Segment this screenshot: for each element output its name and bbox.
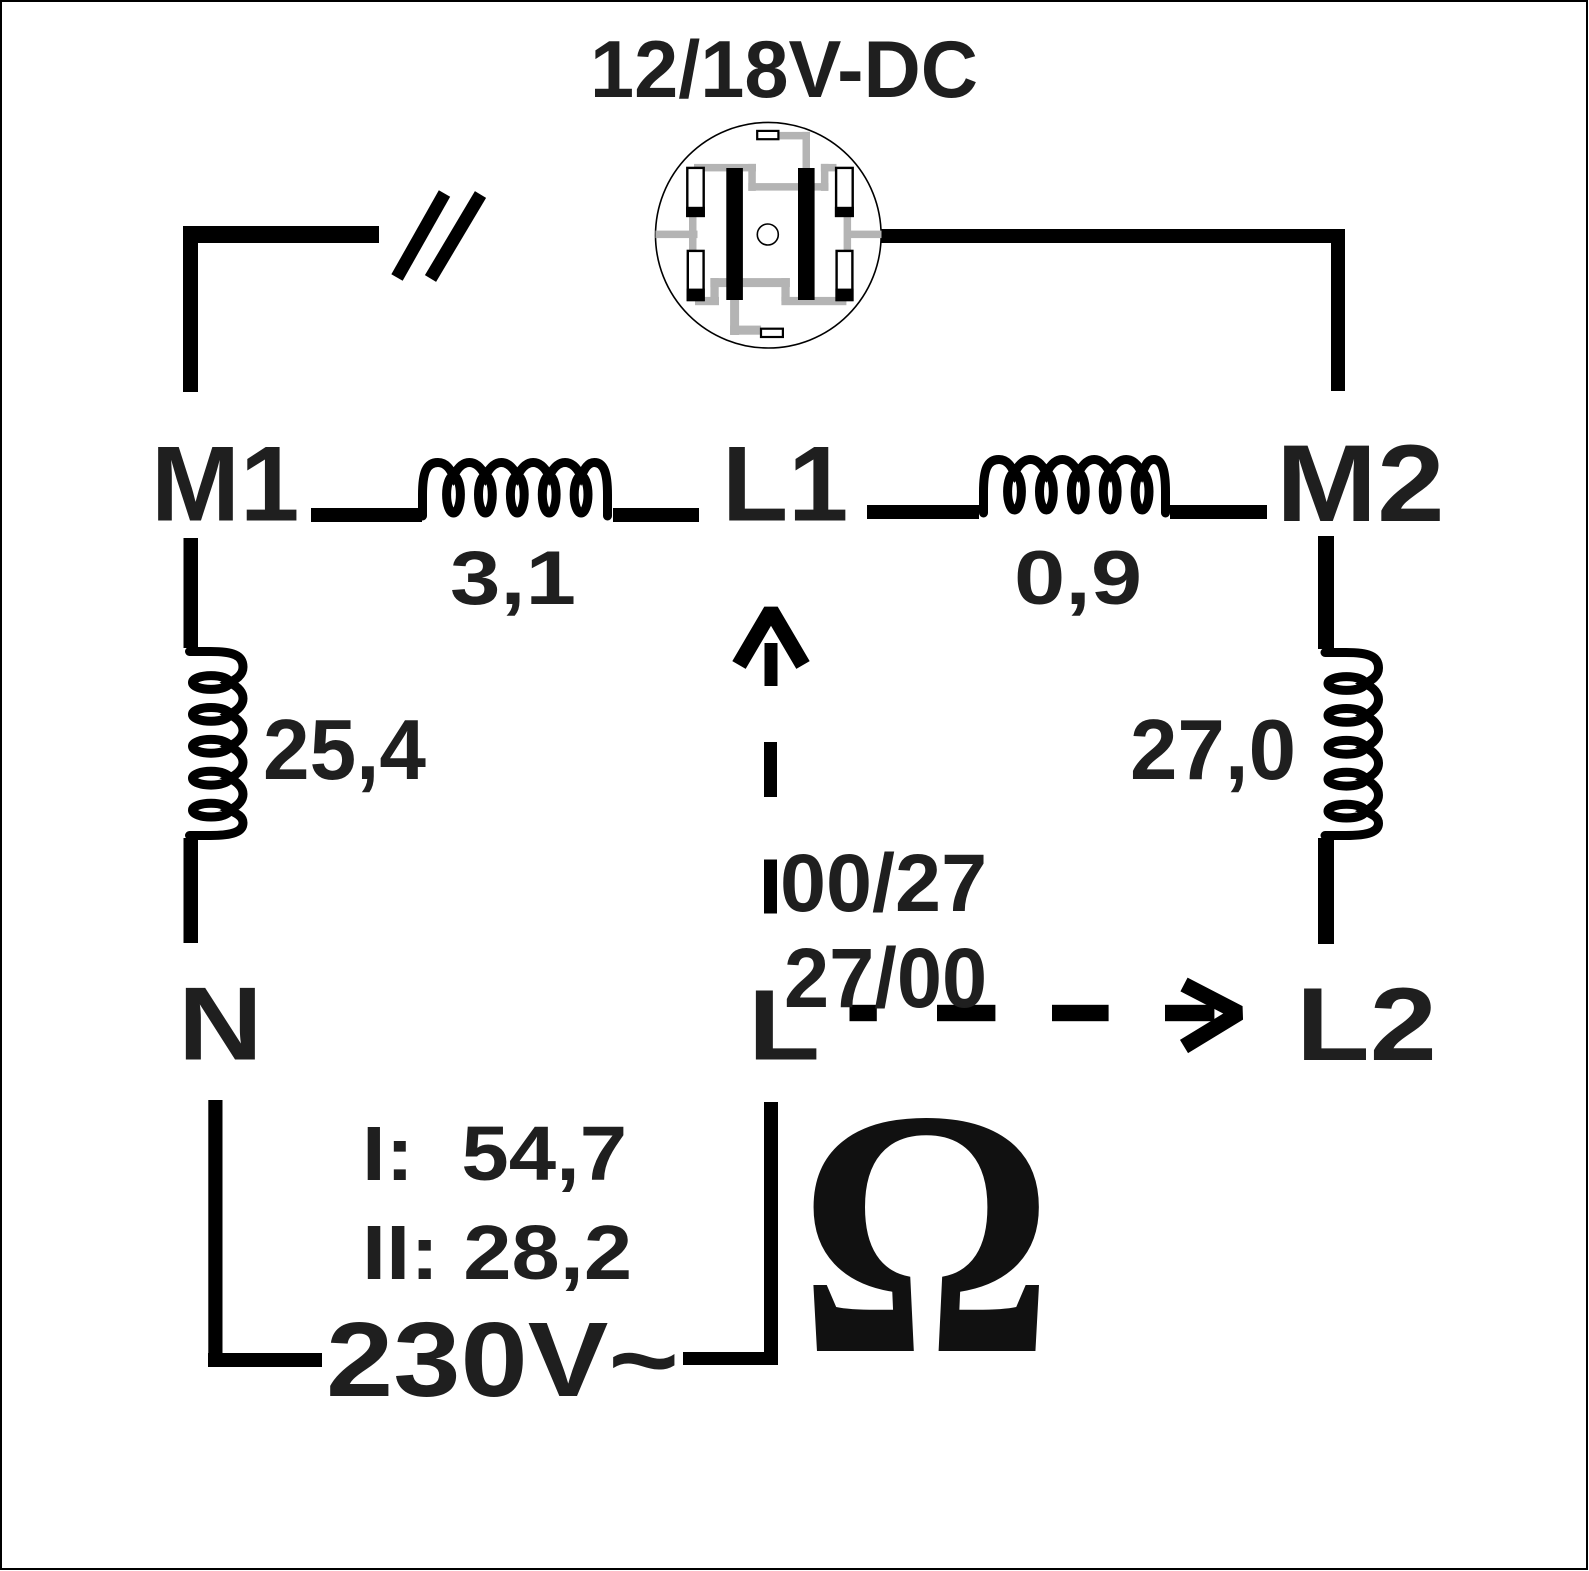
svg-text:Ω: Ω — [799, 1038, 1053, 1428]
svg-text:25,4: 25,4 — [263, 703, 426, 798]
svg-text:3,1: 3,1 — [450, 536, 576, 621]
svg-text:N: N — [178, 965, 263, 1081]
svg-text:L2: L2 — [1296, 967, 1437, 1083]
svg-text:27/00: 27/00 — [784, 931, 987, 1025]
svg-text:II: 28,2: II: 28,2 — [362, 1210, 632, 1296]
svg-text:27,0: 27,0 — [1130, 703, 1296, 798]
svg-text:M2: M2 — [1276, 423, 1445, 545]
svg-text:L1: L1 — [722, 425, 848, 544]
svg-text:0,9: 0,9 — [1014, 536, 1142, 621]
svg-text:I: 54,7: I: 54,7 — [362, 1111, 627, 1197]
svg-text:M1: M1 — [151, 425, 299, 544]
svg-text:230V~: 230V~ — [326, 1301, 679, 1419]
svg-text:12/18V-DC: 12/18V-DC — [590, 25, 978, 115]
svg-text:00/27: 00/27 — [780, 838, 987, 929]
